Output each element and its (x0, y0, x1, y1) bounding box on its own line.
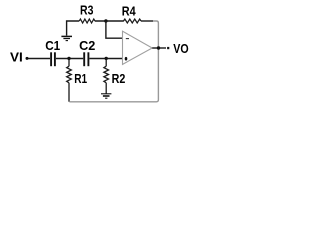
svg-text:VO: VO (173, 41, 188, 56)
node B junction dot (C2/R2/op-amp) (105, 57, 108, 60)
wire node C down to inverting input (106, 21, 122, 38)
wire R4 to feedback corner (141, 20, 153, 22)
svg-text:R3: R3 (80, 3, 93, 18)
wire C2 to op-amp noninverting input (89, 58, 122, 60)
node A junction dot (C1/C2/R1) (67, 57, 70, 60)
node input pin dot (26, 57, 29, 60)
resistor R2 (104, 59, 109, 94)
wire input VI to C1 (27, 58, 50, 60)
svg-text:C1: C1 (45, 38, 60, 53)
ground below R3 left end (61, 36, 72, 40)
capacitor C1 (51, 52, 55, 66)
op-amp plus marker (125, 57, 128, 61)
op-amp U1 (123, 31, 153, 64)
capacitor C2 (84, 52, 88, 66)
svg-text:VI: VI (10, 50, 23, 65)
resistor R3 (79, 19, 95, 23)
resistor R1 (67, 59, 72, 102)
ground below R2 (101, 94, 111, 98)
wire C1 to C2 (56, 58, 83, 60)
svg-text:R1: R1 (74, 71, 87, 86)
node output junction dot (157, 46, 160, 49)
svg-text:R2: R2 (112, 71, 126, 86)
svg-text:R4: R4 (122, 3, 137, 18)
op-amp minus marker (126, 38, 129, 40)
wire op-amp output to VO (152, 47, 166, 49)
svg-text:C2: C2 (79, 38, 95, 53)
wire ground corner to R3 (67, 21, 80, 36)
resistor R4 (124, 19, 142, 23)
node C junction dot (R3/R4/inverting input) (104, 19, 107, 22)
wire feedback rail (right and bottom, gray) (69, 21, 158, 102)
node VO pin dot (167, 47, 169, 49)
wire R3 to R4 (95, 20, 124, 22)
